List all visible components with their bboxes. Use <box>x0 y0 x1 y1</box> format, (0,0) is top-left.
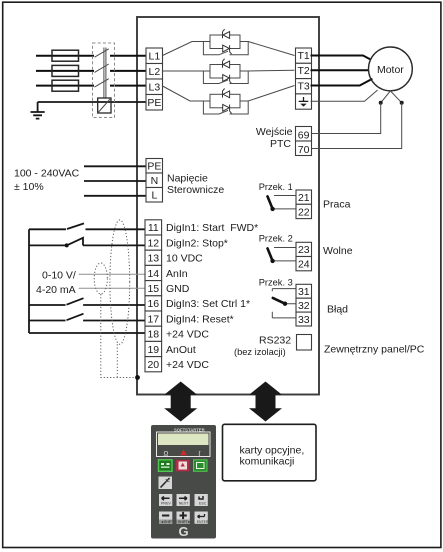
terminal 22 <box>296 204 312 218</box>
terminal 33 <box>296 312 312 326</box>
terminal 17 <box>145 311 162 326</box>
keypad PREV button <box>159 494 172 506</box>
terminal 16 <box>145 296 162 311</box>
svg-text:Ω: Ω <box>164 451 169 458</box>
svg-text:PTC: PTC <box>270 138 291 150</box>
svg-text:14: 14 <box>147 268 159 280</box>
fuse F3 <box>52 80 79 91</box>
wire module 2 to T2 <box>240 69 295 72</box>
wire earth terminal to motor <box>311 90 378 101</box>
keypad local/remote button <box>159 477 173 490</box>
contactor K1 pole 3 blade <box>95 79 109 87</box>
svg-text:Praca: Praca <box>323 198 351 210</box>
terminal 24 <box>296 257 312 271</box>
svg-text:L1: L1 <box>149 50 161 62</box>
svg-text:Wejście: Wejście <box>256 126 293 138</box>
svg-text:(bez izolacji): (bez izolacji) <box>234 347 286 357</box>
wire digital input 16 <box>29 304 145 306</box>
wire control supply N <box>84 180 146 182</box>
svg-text:Przek. 2: Przek. 2 <box>259 234 293 244</box>
svg-text:12: 12 <box>147 237 159 249</box>
arrow option card link (double headed) <box>249 382 282 422</box>
relay K4 changeover contact (31-32-33) <box>272 289 296 318</box>
svg-text:15: 15 <box>147 283 159 295</box>
terminal 69 <box>296 127 312 142</box>
ground (mains earth symbol) <box>31 102 45 119</box>
svg-text:NEXT: NEXT <box>179 502 189 506</box>
wire PE earth conductor <box>38 101 146 103</box>
terminal N <box>146 173 163 188</box>
svg-text:13: 13 <box>147 253 159 265</box>
switch S2 Stop blade (closed) <box>67 238 83 246</box>
keypad body <box>151 425 216 539</box>
terminal L1 <box>146 48 163 64</box>
contactor K1 pole 1 blade <box>95 49 109 57</box>
svg-text:DigIn2: Stop*: DigIn2: Stop* <box>166 237 228 249</box>
svg-text:10 VDC: 10 VDC <box>166 253 203 265</box>
svg-text:19: 19 <box>147 344 159 356</box>
svg-text:100 - 240VAC: 100 - 240VAC <box>14 168 80 180</box>
terminal 20 <box>145 357 162 372</box>
bypass contact phase 2 <box>203 71 248 84</box>
svg-text:DigIn1: Start FWD*: DigIn1: Start FWD* <box>166 222 258 234</box>
svg-text:33: 33 <box>298 314 310 326</box>
wire PTC right to terminal 70 <box>311 103 402 149</box>
svg-text:32: 32 <box>298 300 310 312</box>
bypass contact phase 1 <box>203 42 248 55</box>
svg-text:DigIn4: Reset*: DigIn4: Reset* <box>166 313 234 325</box>
keypad LCD <box>158 434 209 446</box>
terminal T2 <box>296 63 312 78</box>
keypad stop button (red) <box>176 460 190 472</box>
svg-text:Przek. 1: Przek. 1 <box>259 182 293 192</box>
svg-text:AnIn: AnIn <box>166 268 188 280</box>
keypad start button (green) <box>159 460 173 472</box>
svg-text:18: 18 <box>147 329 159 341</box>
terminal 13 <box>145 250 162 265</box>
switch S3 Set Ctrl blade <box>67 298 84 305</box>
svg-text:11: 11 <box>148 222 159 234</box>
wire PTC left to terminal 69 <box>311 103 381 134</box>
svg-text:69: 69 <box>298 129 310 141</box>
wire digital input 11 <box>29 228 145 230</box>
svg-text:T2: T2 <box>297 65 309 77</box>
svg-text:Sterownicze: Sterownicze <box>167 184 224 196</box>
wire digital input 17 <box>29 320 145 322</box>
terminal PE control <box>146 159 163 174</box>
node switch S2 pivot <box>65 243 69 247</box>
wire control supply L <box>84 195 146 197</box>
keypad ESC button <box>195 494 208 506</box>
keypad display panel frame <box>157 432 211 457</box>
switch S4 Reset blade <box>67 314 84 321</box>
wire digital input 12 <box>29 244 145 246</box>
svg-text:RS232: RS232 <box>259 335 291 347</box>
terminal 19 <box>145 341 162 356</box>
svg-text:N: N <box>151 175 159 187</box>
svg-text:± 10%: ± 10% <box>14 181 44 193</box>
wire module 3 to T3 <box>240 86 295 102</box>
RS232 port square <box>297 335 312 351</box>
motor thermistor leads (V shape) <box>381 91 402 103</box>
node PTC left <box>379 101 383 105</box>
svg-text:DigIn3: Set Ctrl 1*: DigIn3: Set Ctrl 1* <box>166 298 250 310</box>
svg-text:PREV: PREV <box>161 502 171 506</box>
node PTC right <box>400 101 404 105</box>
svg-text:T3: T3 <box>297 81 309 93</box>
svg-text:komunikacji: komunikacji <box>240 456 295 468</box>
contactor K1 pole 2 blade <box>95 64 109 72</box>
svg-text:+24 VDC: +24 VDC <box>166 329 209 341</box>
wire common rail digital inputs <box>28 229 30 333</box>
wire analog input 0-10V <box>79 273 145 275</box>
svg-text:Napięcie: Napięcie <box>167 173 208 185</box>
terminal 70 <box>296 141 312 156</box>
svg-text:L3: L3 <box>149 81 161 93</box>
wire module 1 to T1 <box>240 42 295 56</box>
svg-text:GND: GND <box>166 283 190 295</box>
keypad NEXT button <box>177 494 190 506</box>
relay K2 contact (21-22) <box>273 196 296 209</box>
terminal T3 <box>296 79 312 94</box>
contactor K1 dashed enclosure <box>93 43 115 118</box>
fuse F2 <box>52 65 79 76</box>
cable shield ellipse outer <box>110 220 130 344</box>
node shield to chassis <box>135 375 140 380</box>
svg-text:21: 21 <box>298 192 310 204</box>
thyristor module 3 (anti-parallel SCR pair) <box>210 89 240 114</box>
terminal 31 <box>296 284 312 298</box>
svg-text:4-20 mA: 4-20 mA <box>36 284 76 296</box>
motor M1 <box>369 47 413 91</box>
svg-text:17: 17 <box>147 313 159 325</box>
svg-text:23: 23 <box>298 244 310 256</box>
svg-text:ESC: ESC <box>199 502 207 506</box>
terminal 23 <box>296 242 312 256</box>
terminal 15 <box>145 281 162 296</box>
wire +24VDC terminal 18 <box>29 332 145 334</box>
svg-text:24: 24 <box>298 259 310 271</box>
wire T2 to motor <box>311 69 369 71</box>
terminal motor earth <box>296 94 312 109</box>
relay K3 contact (23-24) <box>273 248 296 261</box>
svg-text:T1: T1 <box>297 50 309 62</box>
terminal 32 <box>296 298 312 312</box>
wire analog input 4-20mA <box>79 287 145 289</box>
keypad ENTER button <box>195 512 208 524</box>
svg-text:20: 20 <box>147 359 159 371</box>
svg-text:ENTER: ENTER <box>197 520 209 524</box>
svg-text:◄SHIFT: ◄SHIFT <box>161 520 174 524</box>
terminal 11 <box>145 220 162 235</box>
svg-text:Przek. 3: Przek. 3 <box>259 278 293 288</box>
terminal 14 <box>145 265 162 280</box>
terminal 12 <box>145 235 162 250</box>
svg-text:L2: L2 <box>149 66 161 78</box>
thyristor module 1 (anti-parallel SCR pair) <box>210 29 240 54</box>
bypass contact phase 3 <box>203 101 248 114</box>
keypad jog button (green) <box>194 460 208 472</box>
arrow keypad link (double headed) <box>164 382 197 422</box>
svg-text:AnOut: AnOut <box>166 344 196 356</box>
terminal L2 <box>146 64 163 80</box>
svg-text:PE: PE <box>147 97 161 109</box>
wire mains L1 phase <box>36 55 146 57</box>
terminal L <box>146 188 163 203</box>
wire L1 to thyristor module 1 <box>163 42 211 56</box>
wire mains L2 phase <box>36 70 146 72</box>
svg-text:31: 31 <box>298 286 310 298</box>
wire T1 to motor <box>311 56 372 60</box>
wire control supply PE <box>84 165 146 167</box>
keypad plus button <box>177 512 190 524</box>
svg-text:70: 70 <box>298 144 310 156</box>
svg-text:L: L <box>151 189 157 201</box>
svg-text:Motor: Motor <box>377 64 404 76</box>
switch S1 Start blade <box>67 223 84 229</box>
terminal 21 <box>296 190 312 204</box>
terminal T1 <box>296 48 312 63</box>
terminal L3 <box>146 79 163 95</box>
svg-text:PE: PE <box>147 160 161 172</box>
wire mains L3 phase <box>36 85 146 87</box>
wire T3 to motor <box>311 79 373 86</box>
wire L2 to thyristor module 2 <box>163 70 211 72</box>
terminal 18 <box>145 326 162 341</box>
wire L3 to thyristor module 3 <box>163 86 211 101</box>
svg-text:Zewnętrzny panel/PC: Zewnętrzny panel/PC <box>324 344 425 356</box>
svg-text:+24 VDC: +24 VDC <box>166 359 209 371</box>
svg-text:22: 22 <box>298 206 310 218</box>
contactor K1 operator box with diagonal <box>98 98 111 113</box>
cable shield ellipse inner (analog pair) <box>94 263 107 294</box>
thyristor module 2 (anti-parallel SCR pair) <box>210 59 240 84</box>
svg-text:Wolne: Wolne <box>323 245 353 257</box>
softstarter main unit block <box>137 17 319 395</box>
svg-text:G: G <box>179 524 189 539</box>
contactor K1 mechanical linkage <box>104 48 106 99</box>
svg-text:16: 16 <box>147 298 159 310</box>
fuse F1 <box>52 50 79 61</box>
svg-text:Błąd: Błąd <box>327 304 348 316</box>
terminal PE mains <box>146 95 163 111</box>
keypad minus button <box>159 512 172 524</box>
option card box <box>223 424 317 481</box>
svg-text:0-10 V/: 0-10 V/ <box>42 269 76 281</box>
shield drain dotted connection <box>101 294 138 378</box>
